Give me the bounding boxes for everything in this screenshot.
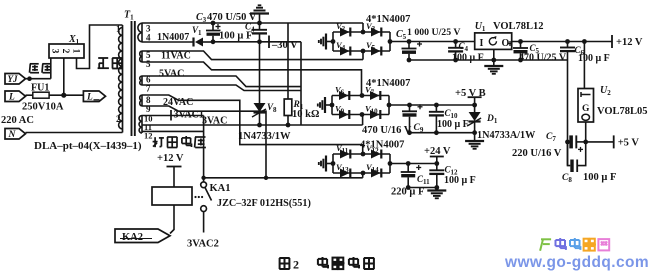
svg-text:100 μ F: 100 μ F — [452, 53, 484, 64]
svg-text:FU1: FU1 — [31, 83, 49, 94]
watermark 广电电器网 — [541, 238, 551, 240]
svg-text:VOL78L12: VOL78L12 — [493, 21, 544, 32]
transformer core — [131, 21, 133, 136]
node C3 top — [211, 21, 216, 26]
node D1 top — [472, 103, 477, 108]
secondary winding pins 3-4 — [138, 23, 142, 42]
ground rail (right section) — [409, 59, 568, 61]
capacitor C4 100uF — [259, 23, 261, 30]
wire D1 ground stem — [474, 133, 476, 141]
bridge B2 diode V9 — [339, 110, 349, 119]
wire -30V rail — [213, 41, 301, 43]
svg-text:DLA–pt–04(X–I439–1): DLA–pt–04(X–I439–1) — [34, 140, 142, 152]
bridge B2 top mid node — [360, 93, 365, 98]
svg-text:X1: X1 — [68, 34, 80, 46]
svg-text:I: I — [480, 38, 484, 49]
svg-text:100 μ F: 100 μ F — [578, 53, 610, 64]
capacitor C5b 470U/25V — [518, 39, 523, 44]
svg-text:N: N — [8, 130, 17, 140]
svg-text:3VAC2: 3VAC2 — [187, 239, 219, 250]
label 应急 (emergency) — [30, 63, 39, 65]
bridge B2 left node + ground — [330, 103, 335, 108]
svg-text:KA1: KA1 — [210, 183, 231, 194]
wire bridge2 output rail — [390, 104, 475, 106]
svg-text:D1: D1 — [486, 114, 498, 125]
wire N to transformer pin2 — [26, 132, 123, 134]
bridge B2 diode V7 — [370, 91, 380, 100]
bridge B1 right node — [388, 39, 393, 44]
svg-text:1 000 U/25 V: 1 000 U/25 V — [407, 27, 460, 38]
wire U1 ground pin — [493, 49, 495, 66]
resistor R1 — [284, 99, 292, 116]
bridge rectifier B2 outline — [332, 95, 389, 97]
KA1 contact blade — [205, 188, 212, 201]
tick 3VAC1 — [170, 110, 172, 121]
node C4 bottom — [257, 39, 262, 44]
bridge B3 diode V14 — [371, 169, 381, 178]
zener diode V8 1N4733/1W — [254, 103, 266, 112]
svg-text:10 kΩ: 10 kΩ — [292, 109, 319, 120]
terminal +24 V — [434, 161, 439, 166]
svg-text:–30 V: –30 V — [271, 40, 298, 51]
capacitor C5 1000U/25V — [407, 39, 412, 44]
svg-text:5VAC: 5VAC — [159, 69, 184, 80]
wire +12V rail down to U2 input — [583, 42, 585, 89]
wire C4 node down to zener V8 — [259, 42, 261, 103]
node pin9/KA1 line — [264, 176, 268, 180]
wire bridge2 bottom input stub — [362, 115, 364, 126]
wire bridge1 output rail — [390, 41, 475, 43]
wire KA1 common to bridge3 input — [204, 177, 363, 179]
svg-text:2: 2 — [293, 258, 299, 272]
svg-text:2: 2 — [116, 114, 121, 124]
wire pin10 3VAC1 line — [142, 115, 204, 117]
node C3 bottom — [211, 39, 216, 44]
secondary winding pins 5-5 — [140, 51, 142, 62]
KA1 contact top — [201, 182, 207, 188]
svg-text:KA2: KA2 — [122, 232, 143, 243]
fuse FU1 — [26, 94, 33, 96]
svg-text:+12 V: +12 V — [157, 153, 184, 164]
svg-text:C3: C3 — [196, 12, 207, 24]
node C5 bottom — [407, 58, 412, 63]
node top rail / ground — [257, 21, 262, 26]
bridge rectifier B1 outline — [333, 31, 390, 33]
svg-text:3VAC1: 3VAC1 — [174, 110, 204, 121]
bridge B1 diode V3 — [371, 28, 381, 37]
svg-text:5: 5 — [146, 59, 151, 69]
svg-text:+12 V: +12 V — [616, 37, 643, 48]
bridge B1 top mid node — [361, 30, 366, 35]
svg-text:1N4733/1W: 1N4733/1W — [238, 131, 291, 142]
bridge rectifier B3 outline — [333, 153, 390, 155]
bridge B1 bottom mid node — [361, 49, 366, 54]
svg-text:1: 1 — [71, 49, 81, 54]
wire bridge1 top input stub — [362, 23, 364, 32]
wire KA1 bottom to 3VAC2 — [203, 212, 205, 233]
capacitor C11 220uF — [406, 161, 411, 166]
ground (U1) — [484, 65, 503, 67]
diode V1 1N4007 — [192, 38, 194, 47]
bridge B3 bottom mid node — [361, 171, 366, 176]
connector L — [5, 91, 26, 102]
connector YJ (emergency live) — [5, 74, 26, 85]
bridge B2 bottom mid node — [360, 112, 365, 117]
svg-text:100 μ F: 100 μ F — [444, 175, 476, 186]
ground (+24V) — [436, 188, 438, 191]
svg-text:JZC–32F 012HS(551): JZC–32F 012HS(551) — [217, 198, 311, 209]
bridge B1 diode V5 — [371, 47, 381, 56]
KA1 contact bottom — [201, 206, 207, 212]
node zener bottom — [257, 123, 262, 128]
svg-text:L: L — [86, 92, 93, 102]
wire bridge1 bottom input stub — [362, 51, 364, 60]
svg-text:L: L — [8, 93, 15, 103]
svg-text:250V10A: 250V10A — [22, 102, 64, 113]
svg-text:T1: T1 — [124, 10, 134, 22]
wire top rail T to R1 — [287, 23, 289, 99]
connector KA2 — [115, 229, 170, 243]
svg-text:YJ: YJ — [8, 74, 18, 84]
wire 24VAC pin8 line down to bridge3 top — [142, 95, 363, 155]
secondary winding pins 8-9 — [140, 95, 142, 106]
capacitor C9 470U/16V — [407, 103, 412, 108]
wire pin11 rail (to zener/R1) — [142, 124, 363, 126]
wire ground drop (C6 to +5V area) — [567, 60, 569, 166]
svg-text:1N4733A/1W: 1N4733A/1W — [477, 130, 536, 141]
svg-text:3: 3 — [50, 49, 60, 54]
bridge B1 left node + ground — [331, 39, 336, 44]
svg-text:G: G — [582, 104, 590, 114]
transformer primary winding — [122, 25, 124, 133]
svg-text:+5 V: +5 V — [618, 137, 640, 148]
wire pin12 line to KA1 — [142, 130, 204, 132]
svg-text:220 U/16 V: 220 U/16 V — [512, 148, 562, 159]
wire 24VAC pin9 line — [142, 106, 266, 178]
wire X1 pin3 lead — [50, 58, 52, 79]
regulator U2 VOL78L05 — [578, 89, 594, 123]
bridge B3 diode V12 — [371, 150, 381, 159]
bridge B2 right node — [387, 103, 392, 108]
wire U2 output down — [585, 122, 587, 142]
svg-text:VOL78L05: VOL78L05 — [597, 106, 648, 117]
wire U1 output — [512, 41, 612, 43]
bridge B2 diode V6 — [339, 91, 349, 100]
connector block X1 — [49, 44, 84, 58]
secondary winding pins 10-11-12 — [139, 116, 142, 134]
svg-text:1: 1 — [116, 24, 121, 34]
svg-text:470 U/25 V: 470 U/25 V — [519, 53, 567, 64]
capacitor C10 100uF — [434, 103, 439, 108]
svg-text:U1: U1 — [475, 21, 486, 33]
node U2 feed — [582, 39, 587, 44]
wire +5VB lower rail — [410, 132, 475, 134]
svg-text:220 AC: 220 AC — [1, 115, 34, 126]
wire bridge3 bottom input stub — [362, 173, 364, 178]
vertical junction wire x301 (-30V to lower rail) — [300, 42, 302, 125]
terminal +12V filament — [167, 166, 182, 168]
svg-text:C11: C11 — [417, 174, 430, 186]
wire relay coil bottom to KA2 — [170, 205, 174, 234]
capacitor C7 220U/16V (horizontal) — [565, 140, 570, 145]
wire pin4 line — [142, 41, 194, 43]
svg-text:+24 V: +24 V — [424, 146, 451, 157]
svg-text:C8: C8 — [562, 173, 572, 184]
svg-text:4*1N4007: 4*1N4007 — [366, 78, 410, 89]
terminal -30 V — [268, 36, 270, 49]
terminal +12 V — [611, 35, 613, 48]
wire +5V rail — [586, 141, 614, 143]
svg-text:4*1N4007: 4*1N4007 — [366, 14, 410, 25]
svg-text:C7: C7 — [546, 132, 556, 143]
svg-text:+5 V B: +5 V B — [455, 88, 486, 99]
ground (+5VB) — [465, 140, 484, 142]
svg-text:V1: V1 — [192, 25, 202, 37]
ground (top, at C4) — [250, 12, 269, 14]
bridge B1 diode V4 — [340, 47, 350, 56]
wire +24V lower rail — [408, 187, 437, 189]
bridge B1 diode V2 — [340, 28, 350, 37]
capacitor C8 100uF loop — [568, 142, 571, 166]
node +5V — [583, 140, 588, 145]
zener D1 1N4733A/1W — [474, 105, 476, 112]
node on YJ wire — [27, 76, 32, 81]
wire 3VAC1 down to KA1 contact — [203, 116, 205, 182]
KA1 actuator dots — [194, 196, 196, 198]
connector L-out (to load) — [83, 91, 105, 102]
svg-text:V8: V8 — [267, 102, 277, 114]
svg-text:11VAC: 11VAC — [161, 51, 191, 62]
wire X1 pin2 lead down to L line — [63, 58, 65, 95]
label 正常 (normal) — [98, 57, 108, 59]
junction on L line — [61, 93, 66, 98]
bridge B3 left node + ground — [331, 161, 336, 166]
node R1 bottom — [286, 123, 291, 128]
svg-text:www.go-gddq.com: www.go-gddq.com — [504, 254, 649, 271]
caption 图2 电源电路 — [279, 257, 289, 259]
connector N — [5, 129, 26, 140]
regulator U1 VOL78L12 — [475, 33, 512, 50]
capacitor C6 100uF — [565, 39, 570, 44]
capacitor C4b 100uF (U1 input) — [453, 39, 458, 44]
bridge B2 diode V10 — [370, 110, 380, 119]
svg-text:100 μ F: 100 μ F — [437, 119, 469, 130]
svg-text:2: 2 — [60, 49, 70, 54]
svg-text:470 U/16 V: 470 U/16 V — [362, 125, 412, 136]
wire 11VAC bottom line to bridge2 top input — [142, 62, 362, 96]
bridge B3 diode V11 — [340, 150, 350, 159]
svg-text:U2: U2 — [600, 85, 611, 97]
svg-text:100 μ F: 100 μ F — [583, 172, 616, 183]
terminal +5VB — [468, 96, 482, 98]
wire bridge3 output rail — [390, 163, 437, 165]
svg-text:4: 4 — [146, 33, 151, 43]
wire 11VAC top line to bridge1 — [142, 51, 363, 60]
bridge B3 top mid node — [361, 152, 366, 157]
wire 5VAC pin6 line — [142, 76, 301, 87]
bridge B3 right node — [388, 161, 393, 166]
wire YJ to X1 pin3 — [26, 78, 51, 80]
wire 5VAC pin7 line — [142, 85, 301, 91]
secondary winding pins 6-7 — [140, 76, 142, 85]
wire pin3 top rail (0V) — [142, 22, 363, 24]
capacitor C3 470U/50V electrolytic — [212, 23, 214, 31]
capacitor C12 100uF — [436, 164, 438, 171]
wire X1 pin1 to transformer pin1 — [77, 25, 123, 69]
terminal +5 V — [613, 135, 615, 148]
label 灯丝电压 (filament voltage) — [154, 137, 156, 147]
relay coil KA1 — [152, 187, 192, 205]
bridge B3 diode V13 — [340, 169, 350, 178]
svg-text:100 μ F: 100 μ F — [219, 31, 252, 42]
svg-text:C5: C5 — [396, 29, 407, 41]
